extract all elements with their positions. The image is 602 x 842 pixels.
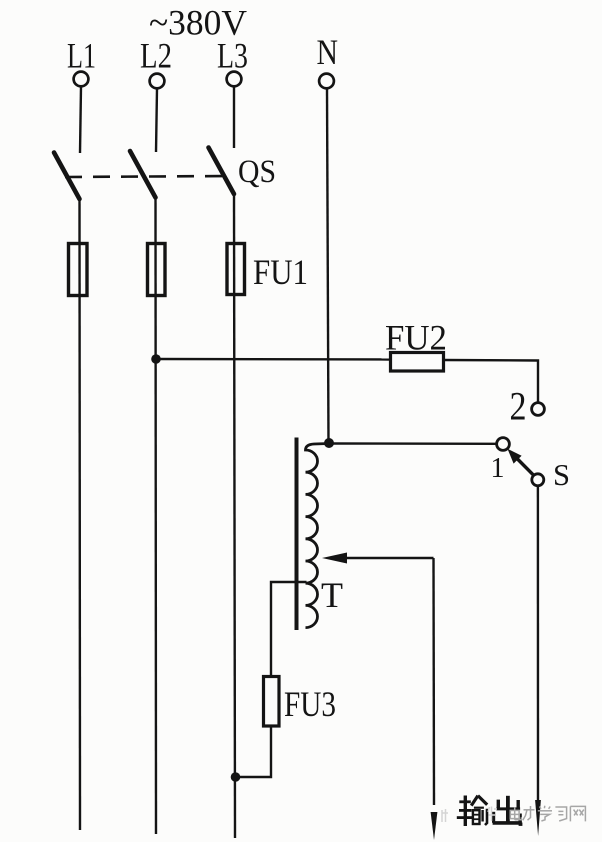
label L1: [67, 36, 96, 76]
transformer T winding: [306, 444, 330, 628]
transformer T core bar: [295, 438, 299, 631]
fuse FU3: [264, 677, 280, 727]
label QS: [238, 154, 276, 190]
contact 2 circle: [532, 403, 545, 416]
watermark faint char fragment left: [442, 807, 497, 823]
svg-text:L1: L1: [67, 36, 96, 76]
terminal L2: [150, 74, 165, 89]
wire N vertical: [327, 89, 329, 444]
terminal N: [319, 74, 334, 89]
watermark char 习: [555, 807, 566, 821]
switch S blade arrow: [508, 449, 534, 476]
arrow output right: [535, 800, 541, 836]
输 char : 俞 roof: [471, 796, 478, 806]
label 输出 (output): [457, 796, 523, 827]
fuse FU1 pole 1: [69, 244, 88, 296]
switch QS pole 3 blade: [209, 148, 235, 195]
label 1: [491, 452, 505, 484]
node junction on L3: [231, 772, 241, 782]
svg-text:QS: QS: [238, 154, 276, 190]
fuse FU2: [391, 353, 444, 372]
wire L3 upper: [233, 87, 235, 149]
wire L3 lower: [234, 193, 235, 838]
wire S down to output: [537, 486, 539, 805]
watermark char 力: [523, 806, 535, 820]
wire FU2 to contact 2: [443, 360, 538, 403]
wire L1 lower: [78, 198, 81, 830]
wire junction to contact 1: [329, 442, 497, 445]
node junction at transformer top: [324, 438, 334, 448]
label FU3: [284, 684, 336, 724]
svg-text:FU2: FU2: [385, 318, 447, 358]
wire junction to FU2: [156, 358, 391, 361]
svg-text:FU1: FU1: [253, 252, 308, 292]
label 2: [510, 384, 527, 429]
svg-text:S: S: [553, 457, 570, 492]
node junction on L2: [151, 354, 161, 364]
wire L2 upper: [156, 89, 157, 153]
watermark char 网: [570, 806, 585, 821]
label L3: [217, 36, 248, 76]
svg-text:L3: L3: [217, 36, 248, 76]
switch QS pole 2 blade: [130, 151, 156, 198]
arrow output left: [431, 812, 438, 840]
wire FU3 to L3 junction: [235, 725, 271, 777]
出 char: [506, 796, 510, 823]
wire L2 lower: [154, 197, 157, 834]
svg-text:N: N: [317, 32, 339, 72]
svg-text:T: T: [321, 575, 343, 615]
fuse FU1 pole 2: [148, 244, 166, 296]
watermark 电力学习网: [442, 806, 585, 822]
contact 1 circle: [497, 438, 510, 451]
label N: [317, 32, 339, 72]
watermark char 电: [510, 807, 522, 820]
wire L1 upper: [80, 87, 81, 154]
watermark char 学: [538, 806, 552, 821]
label T: [321, 575, 343, 615]
svg-text:FU3: FU3: [284, 684, 336, 724]
label FU1: [253, 252, 308, 292]
svg-text:1: 1: [491, 452, 505, 484]
label FU2: [385, 318, 447, 358]
fuse FU1 pole 3: [227, 244, 245, 295]
contact S circle: [532, 474, 544, 486]
label L2: [140, 36, 172, 76]
label S: [553, 457, 570, 492]
输 char : 车 radical: [464, 796, 467, 827]
wire transformer bottom tap: [271, 582, 307, 677]
transformer tap arrow wire: [322, 553, 434, 806]
svg-text:2: 2: [510, 384, 527, 429]
输 char : 月 box: [473, 810, 480, 824]
terminal L1: [74, 72, 89, 87]
输 char : 刂: [481, 810, 483, 822]
label ~380V: [149, 3, 247, 43]
QS linkage dashed line: [65, 176, 230, 177]
svg-text:L2: L2: [140, 36, 172, 76]
terminal L3: [227, 72, 242, 87]
switch QS pole 1 blade: [54, 153, 80, 200]
